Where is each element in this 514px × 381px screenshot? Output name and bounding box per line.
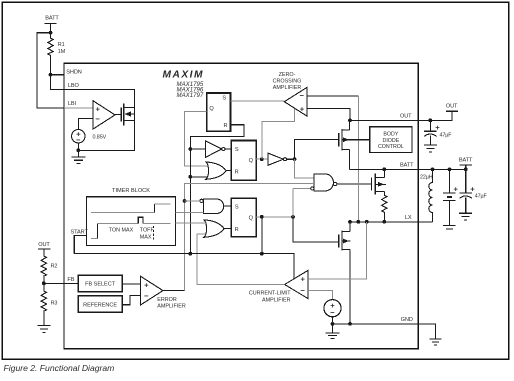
svg-text:R2: R2 (51, 264, 58, 270)
svg-text:S: S (235, 204, 239, 210)
box REFERENCE (78, 296, 122, 312)
inverter B (after latch U2 Q) (268, 153, 284, 165)
svg-text:−: − (144, 292, 149, 301)
IC block outline (64, 63, 418, 348)
resistor R1 (48, 33, 53, 75)
wire OUT rail (350, 119, 452, 121)
svg-text:GND: GND (401, 317, 413, 323)
resistor R2 (41, 256, 46, 283)
node N2 drain to LX rail (348, 220, 352, 224)
svg-text:AMPLIFIER: AMPLIFIER (262, 298, 291, 304)
wire SHDN (51, 74, 65, 76)
svg-text:MAX: MAX (140, 234, 152, 240)
AND gate (inverted input, to latch U3 S) (203, 199, 223, 214)
node N1 drain to BATT rail (382, 167, 386, 171)
svg-text:1M: 1M (58, 49, 66, 55)
svg-text:R: R (223, 123, 227, 129)
capacitor C2 47uF (BATT) (460, 169, 472, 193)
wire U2 Q output (256, 158, 268, 160)
svg-text:OUT: OUT (446, 103, 458, 109)
svg-text:−: − (300, 286, 305, 295)
svg-text:TOFF: TOFF (140, 227, 155, 233)
wire U1 R input path (190, 125, 244, 254)
wire BATT external rail (418, 168, 465, 170)
node error amp to AND bubble (183, 199, 187, 203)
wire timer out 1 to AND input (176, 211, 204, 213)
svg-text:Q: Q (249, 215, 254, 221)
svg-text:+: + (95, 105, 100, 114)
svg-text:47µF: 47µF (440, 132, 453, 138)
node U3 Q junction A (260, 215, 264, 219)
ground (FB divider) (37, 319, 50, 333)
ground (CL offset source) (326, 324, 340, 339)
OR gate OR2 (to latch U3 R) (204, 220, 224, 237)
wire ZC minus to LX sense (307, 95, 359, 97)
svg-text:LBI: LBI (68, 101, 77, 107)
svg-text:REFERENCE: REFERENCE (83, 302, 117, 308)
svg-text:47µF: 47µF (475, 193, 488, 199)
svg-text:AMPLIFIER: AMPLIFIER (157, 304, 186, 310)
svg-text:+: + (300, 275, 305, 284)
box FB SELECT (78, 275, 122, 292)
wire U3 Q line to transistor N2 gate (293, 217, 339, 242)
node OUT rail junction (348, 118, 352, 122)
node OR1 input junction (188, 175, 192, 179)
node R sense to LX rail (382, 220, 386, 224)
inverter A (to latch U2 S) (190, 148, 205, 150)
wire start line to CL plus corner (74, 254, 294, 279)
svg-text:−: − (300, 91, 305, 100)
svg-text:S: S (235, 147, 239, 153)
node CL plus sense on LX (365, 220, 369, 224)
svg-text:CONTROL: CONTROL (378, 144, 404, 150)
latch U1 (top S/R) (207, 93, 231, 131)
node LBO/source/ground junction (76, 148, 80, 152)
svg-text:R3: R3 (51, 301, 58, 307)
node FB divider junction (42, 282, 46, 286)
wire bridge latch U2 Q up to ZC amp plus input (262, 108, 295, 159)
svg-text:−: − (95, 115, 100, 124)
wire LX rail (350, 221, 433, 223)
wire inverter B out down to NAND top input (295, 159, 315, 178)
transistor Q1 (LBO open-drain) (115, 113, 121, 115)
svg-text:−: − (330, 308, 335, 317)
svg-text:R: R (235, 170, 239, 176)
svg-text:BATT: BATT (45, 16, 59, 22)
svg-text:START: START (71, 230, 89, 236)
wire long gray control line (185, 184, 314, 291)
waveform B TON/TOFF (91, 237, 97, 239)
ground (0.85V cell) (71, 150, 85, 163)
svg-text:MAX1797: MAX1797 (177, 92, 204, 99)
svg-text:ZERO-: ZERO- (279, 72, 296, 78)
box TIMER BLOCK (87, 197, 176, 246)
node SHDN/LBO junction (49, 73, 53, 77)
transistor N1 (synchronous rectifier) (371, 178, 373, 191)
svg-text:DIODE: DIODE (383, 138, 400, 144)
latch U2 (231, 141, 256, 181)
svg-text:+: + (144, 281, 149, 290)
OR gate OR1 (to latch U2 R) (190, 176, 208, 178)
voltage source 0.85V (72, 130, 85, 143)
svg-text:BATT: BATT (459, 157, 473, 163)
wire timer out 2 to OR2 input (176, 222, 206, 224)
svg-text:CURRENT-LIMIT: CURRENT-LIMIT (249, 291, 291, 297)
svg-text:CROSSING: CROSSING (273, 79, 302, 85)
wire T1 gate from inverter B node (295, 140, 339, 160)
svg-text:ERROR: ERROR (157, 297, 177, 303)
op-amp CL (285, 271, 308, 299)
capacitor C1 47uF (OUT) (424, 120, 436, 131)
ground (GND pin external) (418, 324, 441, 345)
node BATT/LBI junction (49, 31, 53, 35)
dashed marker TOFF MAX (153, 226, 155, 240)
wire error amp output up (163, 290, 185, 292)
wire LBI internal (64, 107, 93, 109)
wire BATT to LBI branch (37, 33, 64, 108)
node U3 Q junction B (291, 215, 295, 219)
node N2 source to GND rail (348, 322, 352, 326)
node battery tap on BATT (448, 167, 452, 171)
wire FB to FB SELECT (44, 282, 78, 284)
wire REFERENCE to error amp minus (122, 296, 141, 305)
svg-text:S: S (222, 96, 226, 102)
waveform A (91, 211, 154, 213)
svg-text:SHDN: SHDN (66, 70, 82, 76)
op-amp LB comparator (93, 101, 115, 130)
battery (input cell) (443, 169, 456, 225)
node C1 tap on OUT (429, 118, 433, 122)
wire GND rail (333, 323, 419, 325)
wire LBO internal (64, 89, 135, 150)
node start line junction B (260, 252, 264, 256)
wire CL output to OR2 lower input (197, 234, 285, 284)
svg-text:BODY: BODY (383, 132, 398, 138)
svg-text:FB SELECT: FB SELECT (85, 282, 116, 288)
svg-text:TON MAX: TON MAX (109, 228, 134, 234)
resistor R3 (41, 283, 46, 318)
svg-text:Q: Q (249, 158, 254, 164)
svg-text:OUT: OUT (400, 113, 412, 119)
latch U3 (231, 198, 256, 237)
wire ZC plus to OUT rail (307, 108, 350, 120)
svg-text:R1: R1 (58, 42, 65, 48)
transistor N2 (main switch) (338, 235, 340, 248)
svg-text:22µH: 22µH (420, 174, 433, 180)
wire CL minus input to offset source (308, 291, 333, 300)
NAND gate U4 (314, 174, 333, 191)
wire comparator minus to 0.85V source (78, 119, 93, 130)
wire NAND inverted input down to U3 Q line (293, 188, 311, 216)
node inverter A input junction (188, 147, 192, 151)
node C2 tap on BATT (464, 167, 468, 171)
svg-text:R: R (235, 227, 239, 233)
wire NAND out to transistor N1 gate (337, 183, 372, 185)
svg-text:Q: Q (209, 106, 214, 112)
node L1 tap on BATT (431, 167, 435, 171)
svg-text:AMPLIFIER: AMPLIFIER (273, 85, 302, 91)
wire LBO external (51, 75, 65, 90)
wire U1 Q to OR1 top input (185, 111, 208, 166)
node start line junction A (188, 252, 192, 256)
svg-text:MAXIM: MAXIM (163, 70, 204, 81)
wire U3 Q long output (256, 216, 293, 218)
svg-text:LBO: LBO (68, 83, 80, 89)
svg-text:+: + (300, 105, 305, 114)
svg-text:0.85V: 0.85V (93, 134, 107, 140)
svg-text:OUT: OUT (38, 242, 50, 248)
svg-text:TIMER BLOCK: TIMER BLOCK (112, 188, 150, 194)
OUT terminal (left) (38, 249, 51, 256)
transistor P1 (body-diode PFET) (338, 133, 340, 147)
node U2 Q junction (260, 157, 264, 161)
op-amp ZC (284, 88, 307, 117)
svg-text:FB: FB (67, 277, 74, 283)
svg-text:LX: LX (405, 215, 412, 221)
node inverter B output junction (293, 157, 297, 161)
BATT terminal (top left) (44, 23, 56, 32)
wire CL plus input from LX (308, 222, 367, 279)
node ZC minus sense on LX (357, 220, 361, 224)
node offset source to GND rail (331, 322, 335, 326)
wire U3 Q down to start line (261, 217, 263, 254)
wire BATT rail (350, 168, 419, 170)
voltage source (CL offset) (324, 300, 341, 317)
wire U1 S input from zero-crossing amp (231, 100, 285, 102)
box BODY DIODE CONTROL (370, 127, 412, 153)
svg-text:Figure 2. Functional Diagram: Figure 2. Functional Diagram (4, 363, 115, 373)
resistor R sense (382, 195, 387, 222)
svg-text:+: + (454, 184, 459, 193)
svg-text:BATT: BATT (400, 162, 414, 168)
op-amp error amplifier (141, 276, 163, 305)
svg-text:+: + (435, 123, 440, 132)
wire FB SELECT to error amp plus (122, 283, 141, 285)
